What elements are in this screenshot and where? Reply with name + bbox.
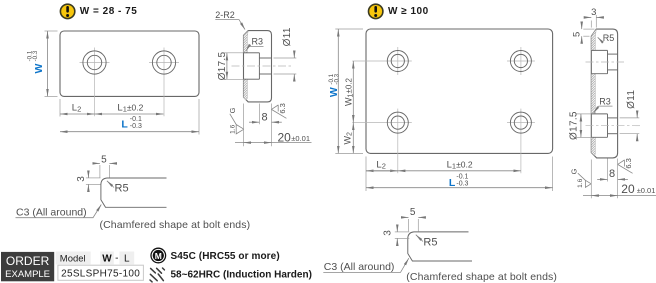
chamfer detail 1 dimension 5 [93, 154, 116, 177]
svg-text:L: L [449, 177, 456, 189]
dimension W2 plate2 [343, 123, 354, 154]
side view 2 through hole bottom [608, 118, 618, 134]
svg-text:25SLSPH75-100: 25SLSPH75-100 [61, 268, 140, 279]
svg-text:3: 3 [591, 7, 596, 18]
svg-text:L: L [124, 254, 130, 265]
side view 1 hatch strip lower [244, 79, 248, 100]
chamfer detail 2 label C3 [323, 258, 409, 273]
svg-text:±0.01: ±0.01 [291, 134, 310, 143]
svg-text:C3 (All around): C3 (All around) [324, 261, 395, 273]
svg-text:8: 8 [261, 111, 267, 123]
svg-text:-0.3: -0.3 [130, 123, 142, 130]
label R3 side view 1 [246, 37, 264, 51]
side view 2 centerline top [586, 61, 625, 63]
svg-text:G: G [569, 168, 578, 174]
hole H2 [152, 51, 175, 74]
dimension W plate2 [328, 29, 363, 153]
side view 2 counterbore bottom [591, 114, 607, 137]
svg-text:2-R2: 2-R2 [215, 10, 235, 20]
warning icon 1 [60, 4, 74, 18]
svg-text:5: 5 [571, 32, 582, 37]
svg-text:-0.3: -0.3 [32, 50, 39, 61]
svg-text:W = 28 - 75: W = 28 - 75 [80, 6, 137, 17]
svg-text:-0.3: -0.3 [334, 73, 341, 84]
svg-text:5: 5 [410, 207, 416, 218]
chamfer detail 1 dimension 3 [76, 171, 100, 191]
dimension 8 plate1 [249, 104, 282, 147]
svg-text:C3 (All around): C3 (All around) [16, 206, 87, 218]
label R5 side view 2 [598, 33, 615, 43]
svg-text:W: W [102, 254, 112, 265]
hardening hatch icon [150, 268, 164, 282]
svg-text:Ø11: Ø11 [282, 27, 293, 46]
dimension L plate2 [366, 157, 553, 192]
side view 2 centerline bottom [586, 125, 641, 127]
hole H2 crosshair [149, 48, 179, 117]
hole H6 [510, 112, 531, 133]
side view 1 hatch strip upper [244, 31, 249, 53]
material icon M [151, 248, 166, 263]
svg-text:R3: R3 [252, 37, 264, 47]
label R3 side view 2 [594, 97, 613, 113]
surface finish 6.3 plate1 [271, 103, 286, 118]
dimension 20 side view 2 [583, 160, 656, 199]
hole H4 crosshair [507, 47, 535, 75]
side view 1 centerline [232, 65, 292, 67]
dimension L plate1 [60, 99, 199, 135]
svg-text:W: W [33, 64, 45, 74]
hole H3 [387, 51, 408, 72]
warning icon 2 [369, 4, 383, 18]
svg-text:3: 3 [383, 230, 394, 236]
svg-text:5: 5 [101, 154, 107, 165]
chamfer detail 2 dimension 3 [383, 225, 410, 245]
svg-text:R3: R3 [599, 97, 611, 107]
side view 2 outline [591, 29, 617, 158]
svg-text:L1±0.2: L1±0.2 [117, 103, 143, 114]
svg-text:S45C (HRC55 or more): S45C (HRC55 or more) [171, 251, 280, 262]
hole H1 [83, 51, 106, 74]
side view 1 outline [244, 31, 272, 102]
svg-text:W: W [328, 87, 340, 97]
dimension W plate1 [26, 31, 57, 96]
svg-text:L1±0.2: L1±0.2 [447, 159, 473, 170]
svg-text:W ≥ 100: W ≥ 100 [388, 6, 429, 17]
svg-text:R5: R5 [423, 236, 437, 248]
dimension L1 plate1 [95, 103, 164, 114]
dimension dia 17.5 side view 2 [568, 111, 591, 140]
side view 1 through hole [259, 58, 271, 74]
dimension 5 side view 2 [571, 23, 594, 42]
svg-text:Ø17.5: Ø17.5 [568, 111, 579, 140]
chamfer detail 2 profile [408, 232, 472, 261]
dimension 3 side view 2 [586, 7, 602, 28]
svg-text:20: 20 [621, 182, 635, 196]
surface finish 1.6 G plate1 [228, 107, 244, 133]
plate 1 outline [60, 31, 199, 96]
surface finish 1.6 G side view 2 [569, 168, 591, 188]
chamfer detail 2 label R5 [416, 235, 438, 249]
svg-text:ORDER: ORDER [6, 254, 50, 268]
svg-text:(Chamfered shape at bolt ends): (Chamfered shape at bolt ends) [406, 271, 557, 283]
surface finish 6.3 side view 2 [618, 158, 633, 173]
dimension dia 17.5 plate1 [217, 51, 244, 80]
hole H5 crosshair [352, 109, 412, 174]
plate 2 outline [366, 29, 553, 153]
chamfer detail 1 profile [101, 178, 167, 207]
side view 1 counterbore [244, 53, 260, 79]
hole H6 crosshair [507, 109, 535, 174]
chamfer detail 1 label C3 [16, 205, 102, 219]
svg-text:3: 3 [76, 176, 87, 182]
side view 2 through hole top [608, 54, 618, 70]
dimension W1 plate2 [344, 61, 355, 123]
svg-text:R5: R5 [115, 183, 129, 195]
svg-text:±0.01: ±0.01 [637, 186, 656, 195]
svg-text:L2: L2 [376, 159, 385, 170]
order example W box [100, 252, 114, 265]
svg-text:EXAMPLE: EXAMPLE [5, 269, 50, 280]
svg-text:1.6: 1.6 [230, 124, 237, 133]
svg-text:-0.1: -0.1 [456, 173, 468, 180]
side view 2 hatch strip middle [591, 74, 595, 114]
dimension dia 11 plate1 [274, 27, 297, 81]
hole H5 [387, 112, 408, 133]
order example model label [56, 252, 91, 265]
hole H1 crosshair [80, 48, 110, 117]
svg-text:-0.3: -0.3 [456, 180, 468, 187]
svg-text:(Chamfered shape at bolt ends): (Chamfered shape at bolt ends) [100, 219, 251, 231]
order example black box [1, 252, 54, 281]
svg-text:Ø17.5: Ø17.5 [217, 51, 228, 80]
dimension L2 plate2 [366, 157, 398, 192]
dimension 8 side view 2 [597, 159, 628, 199]
svg-text:-0.1: -0.1 [130, 116, 142, 123]
svg-text:1.6: 1.6 [577, 178, 584, 187]
order example L box [119, 252, 134, 265]
side view 2 hatch strip lower [591, 137, 595, 155]
chamfer detail 1 label R5 [107, 181, 129, 195]
svg-text:Model: Model [60, 253, 86, 264]
svg-text:G: G [228, 107, 237, 113]
svg-text:M: M [155, 251, 162, 261]
hole H3 crosshair [352, 47, 412, 75]
svg-text:L: L [121, 119, 128, 131]
dimension dia 11 side view 2 [620, 90, 640, 141]
label 2-R2 [215, 10, 245, 30]
svg-text:-: - [115, 253, 118, 264]
svg-text:R5: R5 [603, 33, 615, 43]
svg-text:8: 8 [609, 168, 615, 180]
hole H4 [510, 51, 531, 72]
svg-text:58~62HRC (Induction Harden): 58~62HRC (Induction Harden) [171, 270, 312, 281]
dimension L2 plate1 [60, 99, 95, 117]
svg-text:6.3: 6.3 [624, 158, 633, 168]
svg-text:Ø11: Ø11 [626, 90, 637, 109]
svg-text:L2: L2 [72, 103, 81, 114]
side view 2 counterbore top [591, 50, 607, 73]
svg-text:6.3: 6.3 [278, 103, 287, 113]
dimension L1 plate2 [366, 159, 521, 170]
order example code box [58, 265, 143, 280]
svg-text:W1±0.2: W1±0.2 [344, 77, 355, 105]
svg-text:20: 20 [278, 130, 292, 144]
dimension 20 plate1 [235, 104, 312, 147]
chamfer detail 2 dimension 5 [402, 207, 425, 231]
side view 2 hatch strip upper [591, 29, 596, 50]
